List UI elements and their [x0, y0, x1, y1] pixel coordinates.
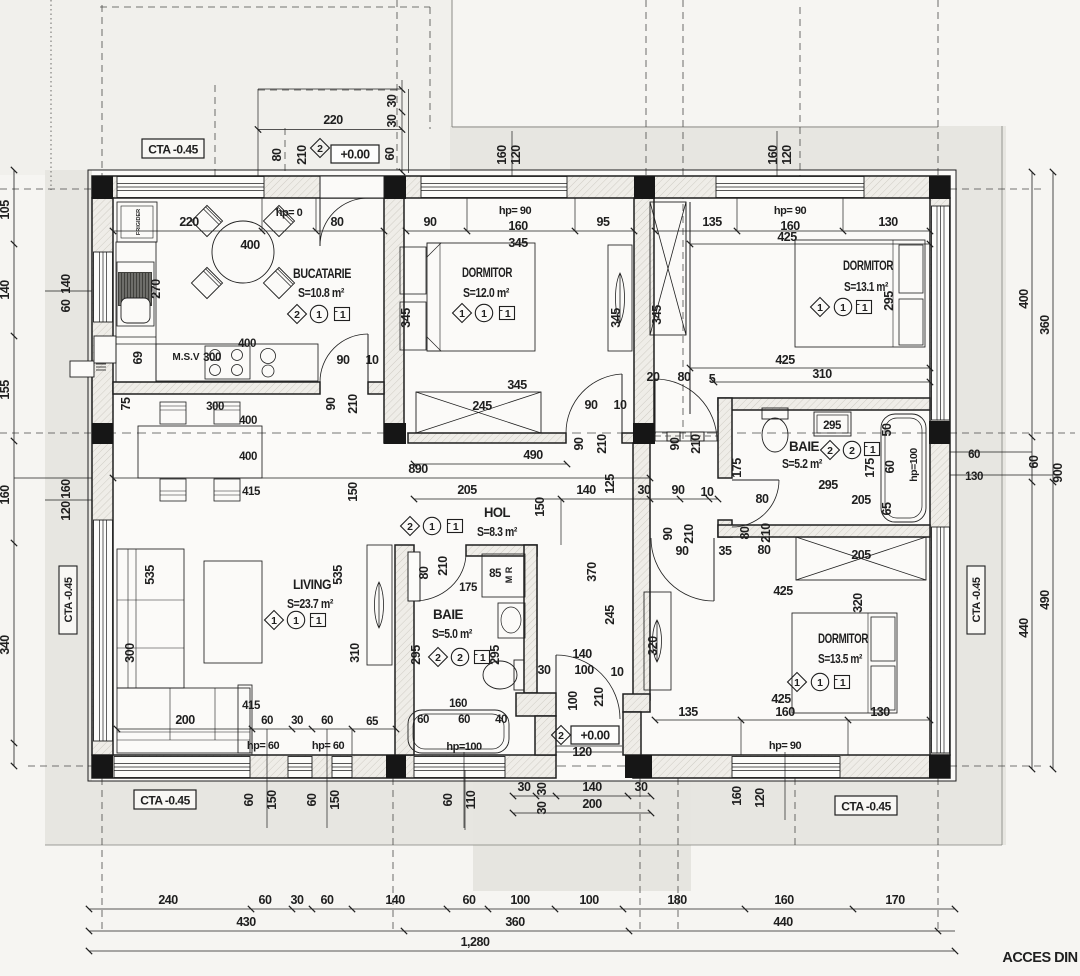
door dormitor1: [621, 374, 623, 433]
svg-text:425: 425: [775, 353, 795, 367]
svg-text:295: 295: [818, 478, 838, 492]
svg-text:2: 2: [827, 445, 833, 457]
axis horizontal y=189: [0, 188, 92, 190]
level box +0.00 entrance: [571, 726, 619, 744]
svg-text:+0.00: +0.00: [340, 148, 370, 162]
svg-text:40: 40: [495, 714, 507, 726]
svg-text:2: 2: [558, 730, 564, 742]
svg-text:90: 90: [661, 527, 675, 540]
svg-text:240: 240: [158, 893, 178, 907]
CTA box left rotated: [59, 566, 77, 634]
svg-text:160: 160: [449, 698, 467, 710]
svg-text:425: 425: [771, 692, 791, 706]
svg-text:210: 210: [759, 523, 773, 543]
axis horizontal y=433: [0, 432, 92, 434]
column mid-left: [92, 423, 113, 444]
svg-text:hp= 90: hp= 90: [769, 740, 802, 752]
column bottom-right: [929, 755, 950, 778]
svg-text:200: 200: [175, 713, 195, 727]
svg-text:2: 2: [849, 445, 855, 457]
shaft duct right line: [685, 202, 687, 335]
kitchen hob with burners: [205, 346, 250, 379]
svg-text:1,280: 1,280: [461, 935, 490, 949]
svg-text:150: 150: [533, 497, 547, 517]
svg-text:490: 490: [523, 448, 543, 462]
svg-text:hp=100: hp=100: [446, 741, 482, 753]
svg-text:HOL: HOL: [484, 505, 510, 520]
svg-text:120: 120: [59, 501, 73, 521]
entrance threshold lines: [556, 745, 622, 747]
interior wall kitchen bottom: [113, 382, 320, 394]
svg-text:890: 890: [408, 462, 428, 476]
svg-text:135: 135: [702, 215, 722, 229]
window dormitor3 bottom hp=90: [732, 757, 840, 778]
svg-text:60: 60: [463, 893, 476, 907]
svg-text:1: 1: [480, 652, 486, 664]
window living bottom small 1: [288, 757, 312, 778]
svg-text:400: 400: [238, 338, 256, 350]
svg-text:69: 69: [131, 351, 145, 364]
scan tint top-left region: [0, 0, 452, 175]
svg-text:2: 2: [294, 309, 300, 321]
svg-text:200: 200: [582, 797, 602, 811]
plan interior white: [92, 170, 956, 781]
svg-text:360: 360: [505, 915, 525, 929]
svg-text:490: 490: [1038, 590, 1052, 610]
dormitor3 closet left: [644, 592, 671, 690]
svg-text:100: 100: [579, 893, 599, 907]
scan tint band above plan: [450, 126, 1006, 174]
window living bottom small 2: [332, 757, 352, 778]
svg-text:1: 1: [340, 309, 346, 321]
svg-text:1: 1: [840, 677, 846, 689]
boundary line right of gray strip: [1001, 126, 1003, 845]
svg-text:295: 295: [488, 645, 502, 665]
dim living bottom: [117, 728, 396, 730]
kitchen fridge: [117, 202, 157, 242]
svg-text:60: 60: [259, 893, 272, 907]
svg-text:90: 90: [324, 397, 338, 410]
axis horizontal y=7: [100, 6, 430, 8]
svg-text:155: 155: [0, 380, 12, 400]
window dormitor2 right wall: [932, 206, 950, 420]
svg-text:30: 30: [385, 94, 399, 107]
column mid shaft wall: [633, 423, 655, 444]
svg-text:80: 80: [331, 215, 344, 229]
chimney niche on wall: [94, 336, 116, 363]
axis horizontal y=90: [258, 89, 403, 91]
baie1 sink: [498, 603, 525, 638]
svg-text:5: 5: [709, 372, 716, 386]
door opening kitchen exterior: [320, 177, 384, 198]
svg-text:60: 60: [321, 893, 334, 907]
svg-text:205: 205: [457, 483, 477, 497]
svg-text:130: 130: [870, 705, 890, 719]
svg-text:80: 80: [678, 370, 691, 384]
svg-text:220: 220: [179, 215, 199, 229]
interior wall dormitor2 bottom / baie2 top: [718, 398, 930, 410]
living sofa vertical arm: [117, 549, 184, 688]
svg-text:210: 210: [295, 145, 309, 165]
right wall band: [930, 198, 950, 755]
svg-text:2: 2: [435, 652, 441, 664]
svg-text:140: 140: [576, 483, 596, 497]
interior wall baie2 left: [718, 398, 732, 478]
window dormitor1 top hp=90: [421, 177, 567, 198]
svg-text:370: 370: [585, 562, 599, 582]
svg-text:100: 100: [510, 893, 530, 907]
dormitor1 closet X: [416, 392, 541, 433]
door baie1: [408, 552, 420, 601]
svg-text:140: 140: [572, 647, 592, 661]
svg-text:205: 205: [851, 493, 871, 507]
svg-text:1: 1: [316, 615, 322, 627]
bottom wall band right: [633, 755, 950, 778]
axis vertical x=102: [101, 5, 103, 176]
door kitchen to living: [367, 334, 369, 382]
svg-text:210: 210: [682, 524, 696, 544]
svg-text:1: 1: [794, 677, 800, 689]
interior wall stub at shaft: [622, 433, 634, 443]
svg-text:170: 170: [885, 893, 905, 907]
door entrance: [555, 655, 557, 719]
svg-text:1: 1: [817, 302, 823, 314]
dim hol row 205: [414, 498, 718, 500]
svg-text:10: 10: [366, 353, 379, 367]
column bottom living wall: [386, 755, 406, 778]
dormitor3 pillows: [871, 617, 895, 661]
svg-text:180: 180: [667, 893, 687, 907]
dormitor1 wardrobe: [608, 245, 632, 351]
svg-text:535: 535: [331, 565, 345, 585]
interior wall hol top arm blocks: [667, 432, 680, 441]
svg-text:60: 60: [383, 147, 397, 160]
svg-text:415: 415: [242, 700, 261, 712]
svg-text:60: 60: [441, 793, 455, 806]
level box +0.00 top: [331, 145, 379, 163]
svg-text:900: 900: [1051, 463, 1065, 483]
svg-text:60: 60: [261, 715, 273, 727]
svg-text:hp= 90: hp= 90: [774, 205, 807, 217]
svg-text:535: 535: [143, 565, 157, 585]
baie1 bathtub: [408, 710, 509, 753]
svg-text:360: 360: [1038, 315, 1052, 335]
kitchen sink unit dark drainer: [117, 262, 154, 326]
axis vertical x=285: [284, 128, 286, 176]
svg-text:S=10.8 m²: S=10.8 m²: [298, 285, 345, 300]
svg-text:150: 150: [328, 790, 342, 810]
svg-text:175: 175: [730, 458, 744, 478]
scan tint bottom strip: [45, 778, 1006, 845]
svg-text:30: 30: [385, 114, 399, 127]
axis vertical x=683: [682, 0, 684, 440]
svg-text:hp= 60: hp= 60: [312, 740, 345, 752]
CTA box bottom-left: [134, 790, 196, 809]
svg-text:2: 2: [317, 143, 323, 155]
svg-text:60: 60: [305, 793, 319, 806]
svg-text:ACCES DIN: ACCES DIN: [1002, 950, 1077, 966]
svg-text:60: 60: [242, 793, 256, 806]
svg-text:210: 210: [346, 394, 360, 414]
svg-text:120: 120: [780, 145, 794, 165]
svg-text:175: 175: [459, 582, 478, 594]
door baie2: [732, 479, 779, 481]
svg-text:85: 85: [489, 568, 502, 580]
door kitchen exterior: [319, 198, 321, 246]
svg-text:30: 30: [291, 893, 304, 907]
svg-text:310: 310: [348, 643, 362, 663]
svg-text:345: 345: [399, 308, 413, 328]
svg-text:50: 50: [880, 423, 894, 436]
svg-text:65: 65: [880, 502, 894, 515]
window baie1 bottom hp=100: [414, 757, 505, 778]
svg-text:95: 95: [597, 215, 610, 229]
column bottom entrance: [625, 755, 652, 778]
svg-text:210: 210: [592, 687, 606, 707]
svg-text:1: 1: [870, 444, 876, 456]
svg-text:BAIE: BAIE: [789, 439, 819, 454]
svg-text:BUCATARIE: BUCATARIE: [293, 266, 351, 281]
baie1 washing machine: [482, 554, 525, 597]
dim right outer line 2: [1052, 172, 1054, 769]
svg-text:90: 90: [424, 215, 437, 229]
interior wall corridor vertical: [633, 443, 650, 700]
svg-text:80: 80: [738, 526, 752, 539]
svg-text:245: 245: [472, 399, 492, 413]
svg-text:125: 125: [603, 474, 617, 494]
svg-text:LIVING: LIVING: [293, 577, 331, 592]
svg-text:175: 175: [863, 458, 877, 478]
dim top 220 row: [258, 129, 402, 131]
kitchen counter bottom: [156, 344, 318, 381]
dormitor1 bed: [427, 243, 535, 351]
svg-text:160: 160: [775, 705, 795, 719]
dim left outer line: [13, 170, 15, 766]
svg-text:1: 1: [481, 308, 487, 320]
shaft duct X: [650, 202, 686, 335]
svg-text:30: 30: [535, 801, 549, 814]
svg-text:M R: M R: [504, 566, 514, 583]
svg-text:205: 205: [851, 548, 871, 562]
svg-text:60: 60: [883, 460, 897, 473]
svg-text:345: 345: [650, 305, 664, 325]
svg-text:1: 1: [316, 309, 322, 321]
svg-text:150: 150: [265, 790, 279, 810]
svg-text:1: 1: [505, 308, 511, 320]
svg-text:90: 90: [676, 544, 689, 558]
dim dormitor1 top row: [406, 230, 634, 232]
svg-text:CTA -0.45: CTA -0.45: [841, 800, 891, 814]
svg-text:80: 80: [756, 492, 769, 506]
svg-text:120: 120: [509, 145, 523, 165]
axis vertical x=646: [645, 0, 647, 176]
outer boundary line of walls: [88, 170, 956, 781]
svg-text:DORMITOR: DORMITOR: [843, 258, 894, 273]
axis vertical x=430: [429, 7, 431, 129]
svg-text:270: 270: [149, 279, 163, 299]
svg-text:425: 425: [777, 230, 797, 244]
baie2 bathtub: [881, 414, 926, 522]
svg-text:35: 35: [719, 544, 732, 558]
svg-text:1: 1: [817, 677, 823, 689]
svg-text:300: 300: [203, 352, 221, 364]
svg-text:30: 30: [638, 483, 651, 497]
column top-left: [92, 176, 113, 199]
living sofa horizontal arm: [117, 688, 250, 753]
living dining chairs top: [160, 402, 186, 424]
svg-text:140: 140: [582, 780, 602, 794]
svg-text:60: 60: [1027, 455, 1041, 468]
svg-text:10: 10: [701, 485, 714, 499]
svg-text:90: 90: [668, 437, 682, 450]
svg-text:60: 60: [59, 299, 73, 312]
svg-text:130: 130: [965, 471, 983, 483]
scan tint right strip: [950, 126, 1006, 845]
interior wall baie1 right: [524, 545, 537, 693]
door dormitor3: [713, 538, 715, 601]
dim kitchen top row: [113, 230, 384, 232]
dim dormitor2 bottom rows: [690, 367, 930, 369]
kitchen sink bowl rounded: [121, 298, 150, 323]
axis vertical x=215: [214, 85, 216, 176]
dim right outer line 1: [1031, 172, 1033, 769]
dim bottom row 1: [89, 908, 955, 910]
window dormitor2 top hp=90: [716, 177, 864, 198]
dormitor3 closet X bottom: [796, 537, 926, 580]
boundary line bottom of gray strip: [45, 844, 1002, 846]
axis vertical x=51 dotted: [50, 0, 52, 190]
column top kitchen wall: [384, 176, 406, 199]
window living left wall: [94, 520, 113, 741]
interior wall shaft vertical: [634, 198, 654, 443]
dim dormitor2 top row: [655, 230, 930, 232]
svg-text:90: 90: [585, 398, 598, 412]
svg-text:105: 105: [0, 200, 12, 220]
svg-text:110: 110: [464, 790, 478, 809]
axis vertical x=800: [799, 7, 801, 176]
kitchen table round: [212, 221, 274, 283]
svg-text:135: 135: [678, 705, 698, 719]
svg-text:1: 1: [862, 302, 868, 314]
interior wall corridor jog: [623, 694, 650, 712]
boundary line top of gray band: [452, 126, 938, 128]
svg-text:1: 1: [840, 302, 846, 314]
svg-text:400: 400: [240, 238, 260, 252]
svg-text:10: 10: [614, 398, 627, 412]
svg-text:440: 440: [1017, 618, 1031, 638]
dim entrance rows: [513, 795, 651, 797]
svg-text:1: 1: [271, 615, 277, 627]
svg-text:300: 300: [123, 643, 137, 663]
svg-text:S=5.2 m²: S=5.2 m²: [782, 456, 823, 471]
svg-text:160: 160: [508, 219, 528, 233]
svg-text:160: 160: [0, 485, 12, 505]
window kitchen top hp=0: [117, 177, 264, 198]
svg-text:140: 140: [0, 280, 12, 300]
living dining chairs bottom: [160, 479, 186, 501]
top wall band: [92, 176, 950, 198]
svg-text:DORMITOR: DORMITOR: [462, 265, 513, 280]
axis vertical x=938: [937, 0, 939, 176]
door hol to corridor: [654, 379, 656, 441]
svg-text:160: 160: [766, 145, 780, 165]
dim 490 row: [414, 463, 567, 465]
axis vertical x=397: [396, 0, 398, 170]
dormitor2 bed: [795, 240, 925, 347]
kitchen chairs: [191, 205, 222, 236]
svg-text:30: 30: [538, 663, 551, 677]
svg-text:BAIE: BAIE: [433, 607, 463, 622]
svg-text:90: 90: [337, 353, 350, 367]
dormitor2 pillows: [899, 245, 923, 293]
svg-text:30: 30: [635, 780, 648, 794]
svg-text:S=23.7 m²: S=23.7 m²: [287, 596, 334, 611]
dim extension lines: [261, 198, 263, 231]
window dormitor3 right wall: [932, 527, 950, 753]
kitchen counter left column: [116, 242, 156, 382]
svg-text:160: 160: [495, 145, 509, 165]
kitchen sink circles: [261, 349, 276, 364]
baie2 washbasin: [814, 412, 851, 436]
svg-text:S=5.0 m²: S=5.0 m²: [432, 626, 473, 641]
svg-text:210: 210: [595, 434, 609, 454]
svg-text:80: 80: [270, 148, 284, 161]
svg-text:CTA -0.45: CTA -0.45: [148, 143, 198, 157]
svg-text:CTA -0.45: CTA -0.45: [971, 577, 983, 622]
column mid kitchen wall: [384, 423, 406, 444]
interior wall dormitor1 closet band: [408, 433, 566, 443]
interior wall porch jog: [516, 693, 556, 716]
svg-text:100: 100: [566, 691, 580, 711]
left wall band: [92, 198, 113, 755]
svg-text:160: 160: [730, 786, 744, 806]
svg-text:30: 30: [291, 715, 303, 727]
svg-text:hp= 90: hp= 90: [499, 205, 532, 217]
svg-text:245: 245: [603, 605, 617, 625]
axis horizontal y=766: [28, 765, 92, 767]
svg-text:295: 295: [882, 291, 896, 311]
svg-text:1: 1: [293, 615, 299, 627]
svg-text:75: 75: [119, 397, 133, 410]
scan tint porch area below entrance: [473, 778, 691, 891]
svg-text:S=12.0 m²: S=12.0 m²: [463, 285, 510, 300]
dim bottom row 3: [89, 950, 955, 952]
svg-text:400: 400: [239, 451, 257, 463]
svg-text:65: 65: [366, 716, 379, 728]
column bottom-left: [92, 755, 113, 778]
dim 890 row: [113, 477, 650, 479]
svg-text:S=8.3 m²: S=8.3 m²: [477, 524, 518, 539]
svg-text:295: 295: [409, 645, 423, 665]
baie2 toilet: [762, 408, 788, 419]
svg-text:320: 320: [851, 593, 865, 613]
interior wall baie2 left stub: [718, 520, 732, 537]
interior wall porch lower: [535, 716, 556, 755]
svg-text:310: 310: [812, 367, 832, 381]
svg-text:S=13.5 m²: S=13.5 m²: [818, 651, 863, 666]
svg-text:80: 80: [417, 566, 431, 579]
living wardrobe shelf: [367, 545, 392, 665]
svg-text:90: 90: [572, 437, 586, 450]
svg-text:30: 30: [535, 782, 549, 795]
svg-text:220: 220: [323, 113, 343, 127]
svg-text:1: 1: [429, 521, 435, 533]
svg-text:295: 295: [823, 420, 842, 432]
CTA box bottom-right: [835, 796, 897, 815]
interior wall corridor lower: [623, 712, 641, 755]
svg-text:30: 30: [518, 780, 531, 794]
svg-text:60: 60: [417, 714, 429, 726]
